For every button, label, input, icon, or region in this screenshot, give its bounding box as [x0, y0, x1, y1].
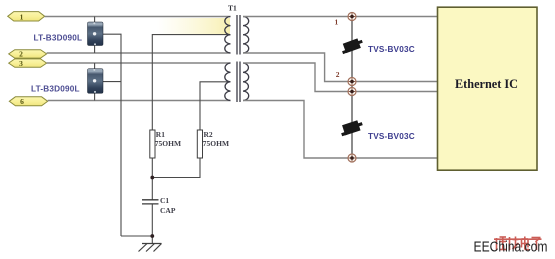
watermark red characters	[494, 237, 542, 251]
wire R2 bottom to junction	[152, 158, 200, 178]
wire node 2a to Ethernet IC	[356, 81, 437, 83]
wire ground bus bottom	[121, 235, 152, 237]
ground	[139, 244, 162, 252]
T1 core	[236, 15, 238, 55]
wire node 3 to Ethernet IC	[356, 157, 437, 159]
svg-text:C1: C1	[160, 196, 169, 205]
svg-text:LT-B3D090L: LT-B3D090L	[34, 33, 83, 42]
wire T1 upper center tap to R1	[152, 35, 229, 130]
capacitor C1	[142, 200, 159, 204]
T1 lower secondary winding	[243, 63, 249, 101]
resistor R2	[197, 130, 202, 158]
wire choke L2 tap	[103, 81, 121, 83]
svg-text:R1: R1	[156, 130, 165, 139]
svg-text:Ethernet IC: Ethernet IC	[455, 76, 518, 91]
T1 upper secondary winding	[243, 17, 249, 54]
resistor R1	[150, 130, 155, 158]
Ethernet IC U1	[438, 7, 538, 170]
wire node 1 to Ethernet IC	[356, 16, 437, 18]
svg-text:R2: R2	[204, 130, 213, 139]
svg-text:CAP: CAP	[160, 206, 176, 215]
node 2a	[348, 78, 356, 86]
connector pin 3	[9, 59, 47, 68]
node 3	[348, 154, 356, 162]
wire T1 lower secondary bottom to node 3	[243, 101, 348, 159]
choke LT-B3D090L L1	[88, 22, 104, 46]
svg-text:75OHM: 75OHM	[155, 139, 181, 148]
svg-text:6: 6	[20, 97, 24, 106]
wire pin1 to T1 primary top	[45, 16, 231, 18]
wire T1 upper secondary bottom to node 2a	[243, 53, 348, 82]
connector pin 1	[8, 12, 45, 22]
junction R1/R2/C1	[150, 176, 154, 180]
wire C1 bottom to ground	[151, 204, 153, 244]
wire R1 bottom to C1	[151, 158, 153, 200]
svg-text:LT-B3D090L: LT-B3D090L	[31, 84, 80, 93]
svg-text:2: 2	[336, 70, 340, 79]
wire choke L1 tap to ground bus	[103, 34, 121, 236]
svg-text:1: 1	[20, 12, 24, 21]
wire pin6 to T1 lower primary bottom	[48, 100, 231, 102]
svg-text:75OHM: 75OHM	[203, 139, 229, 148]
node 1	[348, 13, 356, 21]
wire T1 lower secondary top to node 2b	[243, 63, 348, 92]
node 2b	[348, 88, 356, 96]
svg-text:TVS-BV03C: TVS-BV03C	[368, 132, 415, 141]
T1 lower primary winding	[225, 63, 231, 101]
transformer T1	[225, 15, 249, 102]
choke LT-B3D090L L2	[88, 69, 104, 94]
wire T1 secondary top to node 1	[243, 16, 348, 18]
wire TVS chain vertical	[351, 17, 353, 159]
svg-text:EEChina.com: EEChina.com	[474, 239, 548, 255]
svg-text:3: 3	[19, 59, 23, 68]
svg-text:1: 1	[335, 17, 339, 26]
wire choke L1 top stub	[94, 17, 96, 23]
svg-text:T1: T1	[228, 4, 237, 13]
wire choke L1 bottom stub	[94, 45, 96, 53]
junction ground node	[150, 234, 154, 238]
wire pin2 to T1 primary bottom	[47, 52, 231, 54]
svg-text:TVS-BV03C: TVS-BV03C	[368, 45, 415, 54]
TVS diode D1	[340, 37, 364, 54]
wire node 2b to Ethernet IC	[356, 91, 437, 93]
T1 upper primary winding	[225, 17, 231, 54]
wire pin3 to T1 secondary-primary top	[47, 62, 231, 64]
connector pin 6	[9, 97, 47, 106]
connector pin 2	[9, 50, 47, 59]
svg-text:2: 2	[19, 50, 23, 59]
wire T1 lower center tap to R2	[200, 82, 230, 130]
wire choke L2 bottom stub	[94, 93, 96, 100]
TVS diode D2	[339, 119, 364, 136]
wire choke L2 top stub	[94, 63, 96, 69]
